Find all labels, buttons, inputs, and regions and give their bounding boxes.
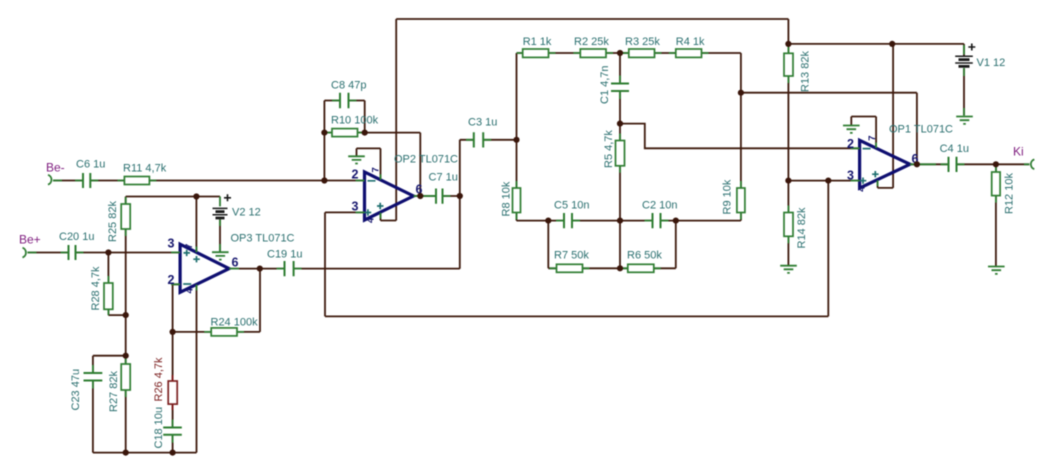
svg-text:R4 1k: R4 1k (676, 36, 705, 48)
capacitor C3 (466, 117, 497, 148)
wire: OP3 pin 4 drop (196, 285, 198, 453)
resistor R2 (573, 36, 613, 57)
wire: bottom rail (93, 452, 197, 454)
wire: OP1 pin 4 loop (878, 44, 894, 188)
capacitor C6 (75, 159, 105, 189)
svg-text:C6 1u: C6 1u (76, 159, 105, 171)
svg-text:C5 10n: C5 10n (554, 200, 589, 212)
svg-text:V2 12: V2 12 (232, 207, 261, 219)
capacitor C18 (153, 407, 182, 449)
capacitor C8 (331, 80, 366, 109)
terminal Be+ (23, 248, 37, 258)
wire: C19 line to node (260, 268, 460, 270)
node junction dots (105, 41, 999, 456)
wire: C3 line to R1 column (460, 139, 517, 141)
svg-text:C2 10n: C2 10n (642, 200, 677, 212)
svg-text:C8 47p: C8 47p (331, 80, 366, 92)
capacitor C23 (70, 365, 102, 411)
capacitor C1 (599, 65, 629, 104)
svg-text:6: 6 (232, 256, 239, 270)
wire: R5 branch (619, 124, 621, 221)
svg-text:R28 4,7k: R28 4,7k (90, 266, 102, 311)
ground below R14 (780, 266, 797, 273)
resistor R8 (501, 181, 521, 220)
ground below V2 (212, 252, 229, 259)
resistor R26 (153, 357, 177, 410)
capacitor C19 (267, 249, 302, 277)
wire: R1-R4 resistor line (517, 52, 741, 54)
wire: V1 negative to ground (963, 69, 965, 116)
terminal Be- (48, 175, 62, 185)
svg-text:R1 1k: R1 1k (523, 36, 552, 48)
op-amp OP2 TL071C (352, 154, 459, 224)
svg-text:R24 100k: R24 100k (211, 317, 259, 329)
op-amp OP1 TL071C (847, 124, 953, 192)
capacitor C7 (428, 172, 458, 204)
wire: OP1 output to C4 and Ki (910, 163, 1029, 165)
capacitor C2 (642, 200, 677, 229)
wire: R27 branch (125, 356, 127, 453)
wire: filter mid line C5 C2 (548, 220, 676, 222)
svg-text:4: 4 (185, 288, 196, 294)
capacitor C20 (59, 231, 94, 260)
wire: OP1 pin 7 ground bracket (851, 117, 876, 149)
svg-text:C7 1u: C7 1u (429, 172, 458, 184)
svg-text:R9 10k: R9 10k (722, 179, 734, 214)
wire: OP3 pin 7 to rail (195, 197, 197, 253)
svg-text:7: 7 (371, 167, 382, 172)
svg-text:R8 10k: R8 10k (501, 181, 513, 216)
wire: Be- input line to OP2 pin 2 (53, 180, 365, 182)
wire: Be+ input line to OP3 pin 3 (28, 252, 181, 254)
svg-text:C20 1u: C20 1u (59, 231, 94, 243)
wire: center column to R7 R6 junction (619, 221, 621, 269)
wire: R26 C18 column (172, 332, 174, 453)
wire: top supply rail (396, 19, 964, 221)
svg-text:Be-: Be- (46, 161, 65, 175)
svg-text:C19 1u: C19 1u (267, 249, 302, 261)
svg-text:R13 82k: R13 82k (800, 51, 812, 92)
svg-text:C3 1u: C3 1u (468, 117, 497, 129)
resistor R1 (517, 36, 556, 57)
svg-text:Ki: Ki (1013, 145, 1024, 159)
wire: OP2 pin 3 bias line (325, 181, 828, 317)
wire: OP2 inverting node up to R10 left (323, 133, 325, 181)
battery V2 (213, 194, 261, 252)
wire: staircase to OP1 pin 2 (620, 124, 860, 149)
wire: R4 right drop to feedback node (740, 53, 742, 93)
wire: vertical node C3/C7/C19 (459, 140, 461, 269)
wire: V2 negative to ground (219, 220, 221, 253)
wire: C23 branch (93, 356, 126, 453)
svg-text:C23 47u: C23 47u (70, 369, 82, 411)
svg-text:R12 10k: R12 10k (1004, 173, 1016, 214)
svg-text:R14 82k: R14 82k (796, 207, 808, 248)
label Be+ (19, 233, 41, 247)
resistor R7 (550, 250, 590, 273)
wire: OP1 pin 3 line (788, 180, 859, 182)
svg-text:C1 4,7n: C1 4,7n (599, 65, 611, 104)
svg-text:OP1 TL071C: OP1 TL071C (889, 124, 953, 136)
label Ki (1013, 145, 1024, 159)
resistor R9 (722, 179, 745, 219)
capacitor C4 (940, 143, 969, 172)
wire: C8 parallel branch (324, 101, 364, 133)
svg-text:C18 10u: C18 10u (153, 407, 165, 449)
ground at OP2 pin 7 (348, 156, 365, 163)
ground below R12 (988, 267, 1005, 274)
svg-text:3: 3 (847, 169, 854, 183)
resistor R4 (669, 36, 709, 57)
battery V1 (955, 44, 1005, 116)
capacitor C5 (554, 200, 589, 229)
resistor R6 (621, 250, 663, 273)
ground below V1 (956, 117, 973, 124)
terminal Ki (1024, 159, 1034, 169)
wire: R12 branch (995, 164, 997, 266)
svg-text:7: 7 (184, 244, 195, 249)
svg-text:3: 3 (168, 237, 175, 251)
wire: R24 feedback loop (173, 269, 260, 332)
svg-text:R2 25k: R2 25k (574, 36, 609, 48)
wire: R7 R6 line (548, 221, 676, 269)
ground at OP1 pin 7 (843, 126, 860, 133)
wire: OP3 output (229, 268, 260, 270)
svg-text:4: 4 (857, 186, 868, 192)
svg-text:R3 25k: R3 25k (625, 36, 660, 48)
svg-text:R6 50k: R6 50k (627, 250, 662, 262)
svg-text:7: 7 (867, 136, 878, 141)
resistor R11 (117, 163, 166, 185)
svg-text:C4 1u: C4 1u (940, 143, 969, 155)
svg-text:OP2 TL071C: OP2 TL071C (394, 154, 458, 166)
wire: V2 positive rail (126, 196, 220, 198)
svg-text:R11 4,7k: R11 4,7k (123, 163, 167, 175)
resistor R13 (784, 47, 812, 92)
resistor R27 (108, 357, 130, 412)
svg-text:R10 100k: R10 100k (331, 115, 379, 127)
wire: OP2 pin 4 loop (381, 213, 397, 221)
wire: OP2 output to C7 and node (414, 195, 460, 197)
label Be- (46, 161, 65, 175)
resistor R5 (603, 130, 625, 173)
resistor R3 (622, 36, 662, 57)
wire: OP2 pin 7 ground bracket (357, 148, 381, 180)
op-amp OP3 TL071C (168, 233, 295, 294)
wire: C1 branch (619, 53, 621, 124)
svg-text:4: 4 (366, 217, 377, 223)
wire: R10 feedback line (324, 132, 364, 134)
svg-text:R27 82k: R27 82k (108, 371, 120, 412)
svg-text:Be+: Be+ (19, 233, 41, 247)
svg-text:R25 82k: R25 82k (107, 201, 119, 242)
svg-text:2: 2 (168, 273, 175, 287)
resistor R28 (90, 266, 113, 315)
wire: R10 right to feedback drop at OP2 output (365, 133, 421, 196)
resistor R25 (107, 197, 130, 242)
svg-text:2: 2 (352, 168, 359, 182)
svg-text:R7 50k: R7 50k (554, 250, 589, 262)
resistor R12 (992, 165, 1016, 214)
svg-text:2: 2 (847, 137, 854, 151)
svg-text:V1 12: V1 12 (977, 57, 1006, 69)
wire: OP3 pin 2 branch (173, 284, 181, 332)
wire: feedback line to OP1 output (741, 93, 917, 165)
svg-text:OP3 TL071C: OP3 TL071C (231, 233, 295, 245)
resistor R24 (204, 317, 258, 336)
wire: R8 branch (517, 140, 549, 221)
wire: R9 column (676, 93, 741, 221)
svg-text:R5 4,7k: R5 4,7k (603, 130, 615, 168)
svg-text:3: 3 (352, 200, 359, 214)
svg-text:R26 4,7k: R26 4,7k (153, 357, 165, 402)
wire: R28 branch (108, 253, 125, 316)
resistor R10 (325, 115, 379, 137)
wire: R25 R28 column (125, 197, 127, 356)
wire: R13 R14 column (787, 44, 789, 266)
resistor R14 (784, 206, 808, 249)
wire: R1 column riser (516, 53, 518, 140)
